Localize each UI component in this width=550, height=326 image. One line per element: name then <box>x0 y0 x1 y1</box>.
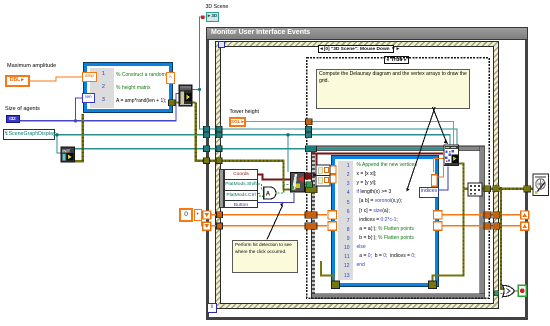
svg-text:INIT: INIT <box>62 148 70 153</box>
svg-text:A: A <box>266 192 271 198</box>
